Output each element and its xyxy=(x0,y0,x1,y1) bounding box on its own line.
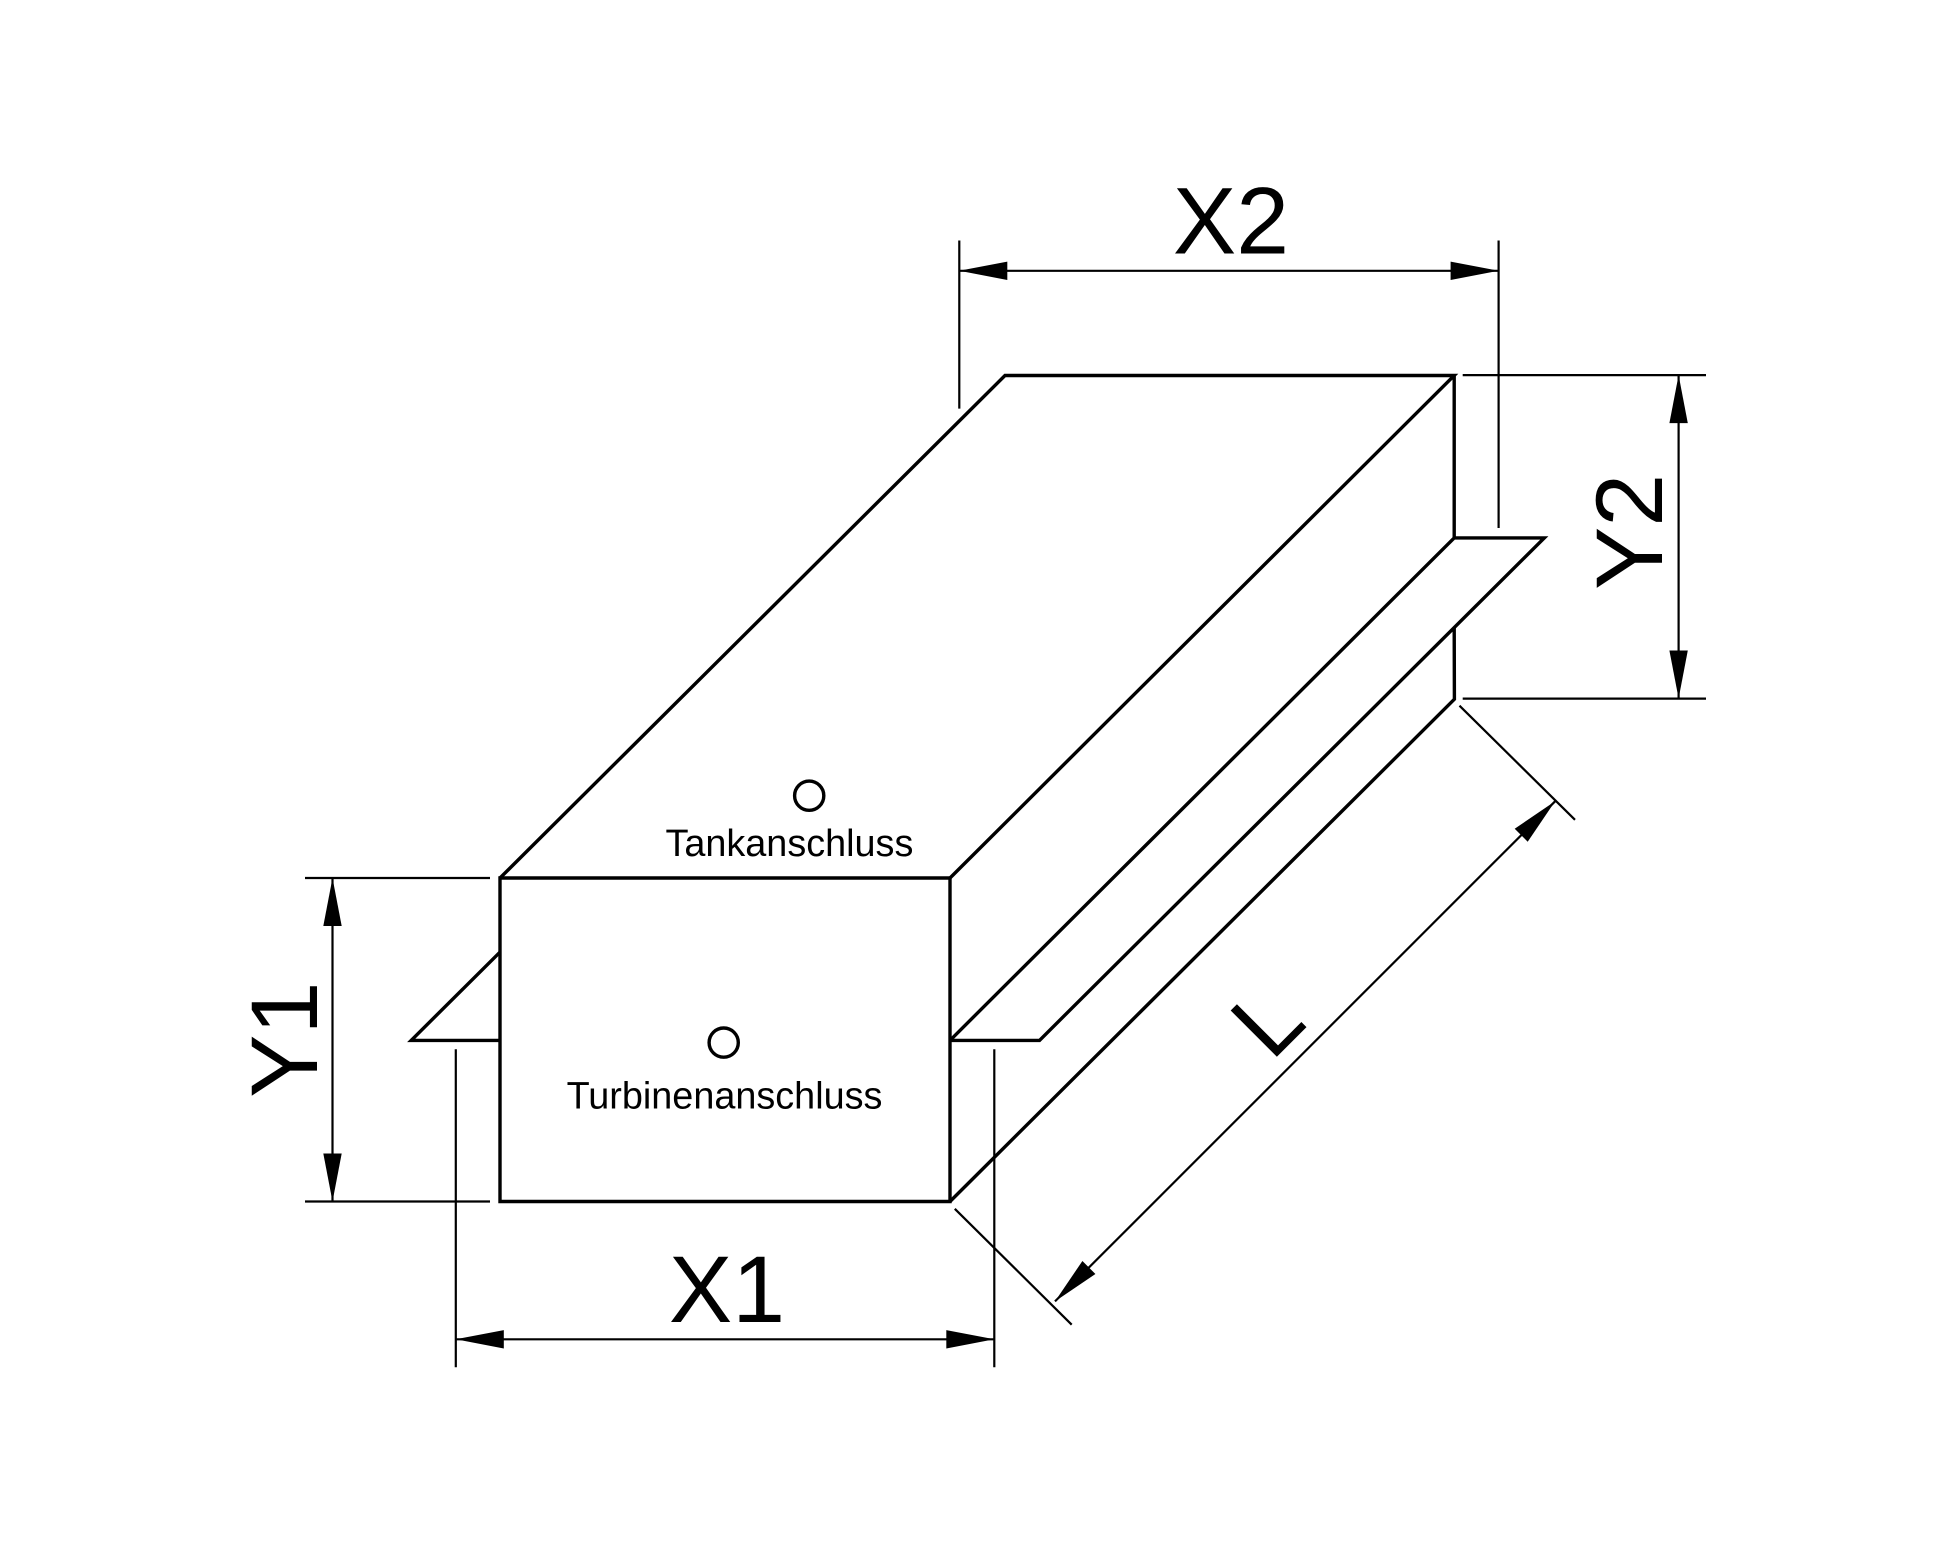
dimension X1 arrow right xyxy=(946,1330,994,1348)
body front face xyxy=(500,878,950,1202)
dimension L line xyxy=(1055,801,1555,1301)
svg-text:Y2: Y2 xyxy=(1577,474,1683,590)
dimension Y1 extension line bottom xyxy=(305,1200,490,1202)
dimension X1 extension line right xyxy=(993,1049,995,1367)
dimension L extension line upper xyxy=(1460,706,1576,820)
dimension Y2 extension line top xyxy=(1463,374,1706,376)
dimension L arrow lower xyxy=(1055,1261,1095,1301)
svg-text:X1: X1 xyxy=(669,1237,785,1343)
dimension L extension line lower xyxy=(955,1209,1072,1325)
dimension Y1 arrow bottom xyxy=(323,1154,341,1202)
dimension Y1 extension line top xyxy=(305,877,490,879)
dimension Y2 line xyxy=(1677,375,1679,698)
svg-text:Y1: Y1 xyxy=(232,982,338,1098)
flange right visible outline xyxy=(950,538,1544,1041)
turbine port hole xyxy=(709,1028,738,1057)
dimension X1 extension line left xyxy=(455,1049,457,1367)
flange left visible outline xyxy=(411,952,500,1040)
svg-text:X2: X2 xyxy=(1173,168,1289,274)
dimension L arrow upper xyxy=(1515,801,1555,841)
dimension X2 extension line right xyxy=(1497,241,1499,529)
svg-text:Tankanschluss: Tankanschluss xyxy=(665,823,913,865)
svg-text:Turbinenanschluss: Turbinenanschluss xyxy=(567,1076,883,1118)
dimension Y2 arrow top xyxy=(1669,375,1687,423)
dimension X2 line xyxy=(959,270,1498,272)
body back right edge lower and right face bottom edge xyxy=(950,628,1454,1202)
dimension X1 arrow left xyxy=(456,1330,504,1348)
dimension X1 line xyxy=(456,1338,995,1340)
dimension Y2 arrow bottom xyxy=(1669,651,1687,699)
dimension Y2 extension line bottom xyxy=(1463,697,1706,699)
body back right edge upper xyxy=(1452,376,1455,538)
dimension X2 extension line left xyxy=(958,241,960,409)
tank port hole xyxy=(795,781,824,810)
body top face outline xyxy=(500,376,1454,879)
dimension Y1 line xyxy=(331,878,333,1202)
dimension X2 arrow left xyxy=(959,262,1007,280)
dimension Y1 arrow top xyxy=(323,878,341,926)
dimension X2 arrow right xyxy=(1451,262,1499,280)
